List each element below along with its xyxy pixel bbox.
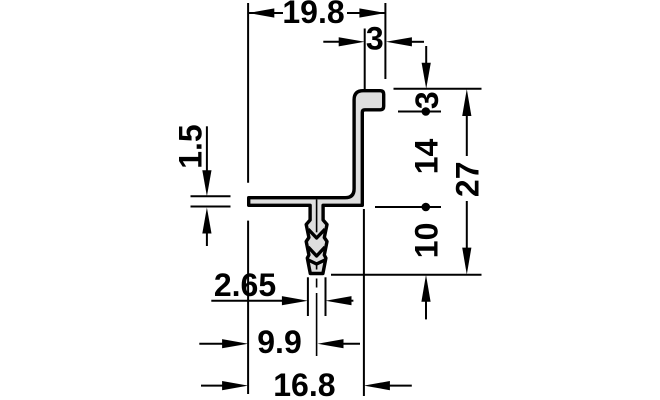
arrow 9.9 left (222, 339, 248, 348)
spigot center line (316, 200, 318, 357)
dim 27 line (466, 114, 468, 156)
svg-text:3: 3 (366, 21, 384, 57)
dim 10 arrow tail (425, 300, 427, 319)
svg-text:2.65: 2.65 (214, 267, 276, 303)
dim 1.5 tails (206, 126, 208, 173)
dot at y=111.5 (422, 107, 431, 116)
spigot tip chevron (307, 260, 326, 265)
svg-text:14: 14 (409, 139, 445, 175)
dot at y=207 (422, 203, 431, 212)
arrow 19.8 right (359, 8, 385, 17)
arrow 16.8 left (222, 381, 248, 390)
svg-text:27: 27 (450, 162, 486, 198)
profile body (Z-profile with barbed spigot) (249, 91, 384, 274)
extension line left (x=248) lower (247, 221, 249, 394)
svg-text:1.5: 1.5 (173, 124, 209, 168)
arrow 2.65 right (326, 296, 352, 305)
extension lines for 2.65 (below spigot tip) (307, 277, 309, 316)
arrow 27 bottom (462, 248, 471, 275)
extension line y=274.7 (spigot tip level, right side) (331, 274, 482, 276)
extension line y=207 (flange bottom, right side) (375, 206, 441, 208)
arrow 10 up (421, 275, 430, 302)
arrow 3 top right (386, 37, 412, 46)
svg-text:9.9: 9.9 (257, 324, 301, 360)
arrow 2.65 left (282, 296, 308, 305)
arrow 3 right down (422, 63, 431, 89)
extension line x=363.9 (wall right face, to bottom) (363, 209, 365, 396)
arrow 1.5 upper (down) (202, 170, 211, 196)
svg-text:3: 3 (409, 91, 445, 109)
arrow 27 top (462, 89, 471, 116)
arrow 1.5 lower (up) (202, 208, 211, 234)
extension lines for 1.5 (left of flange) (191, 195, 231, 197)
arrow 19.8 left (248, 8, 274, 17)
extension line right of lip (x=385.4) (384, 3, 386, 79)
dim 3 top tails (323, 41, 341, 43)
arrow 3 top left (339, 37, 365, 46)
svg-text:19.8: 19.8 (282, 0, 344, 30)
spigot barb chevron 2 (308, 247, 325, 256)
dim 19.8 line (248, 12, 283, 14)
dim 16.8 tails (201, 385, 224, 387)
extension line y=111.5 (lip bottom, right side) (398, 111, 441, 113)
svg-text:16.8: 16.8 (273, 367, 335, 400)
extension line x=364.7 for top 3 (364, 29, 366, 91)
spigot barb chevron 1 (308, 229, 325, 238)
svg-text:10: 10 (409, 223, 445, 259)
arrow 9.9 right (318, 339, 344, 348)
dim 9.9 tails (199, 343, 224, 345)
extension line left (x=248) upper (247, 3, 249, 183)
extension line y=88.8 (profile top, right side) (394, 88, 482, 90)
dim 2.65 tails (211, 300, 284, 302)
arrow 16.8 right (364, 381, 390, 390)
dim 3 right vertical tail (425, 46, 427, 66)
